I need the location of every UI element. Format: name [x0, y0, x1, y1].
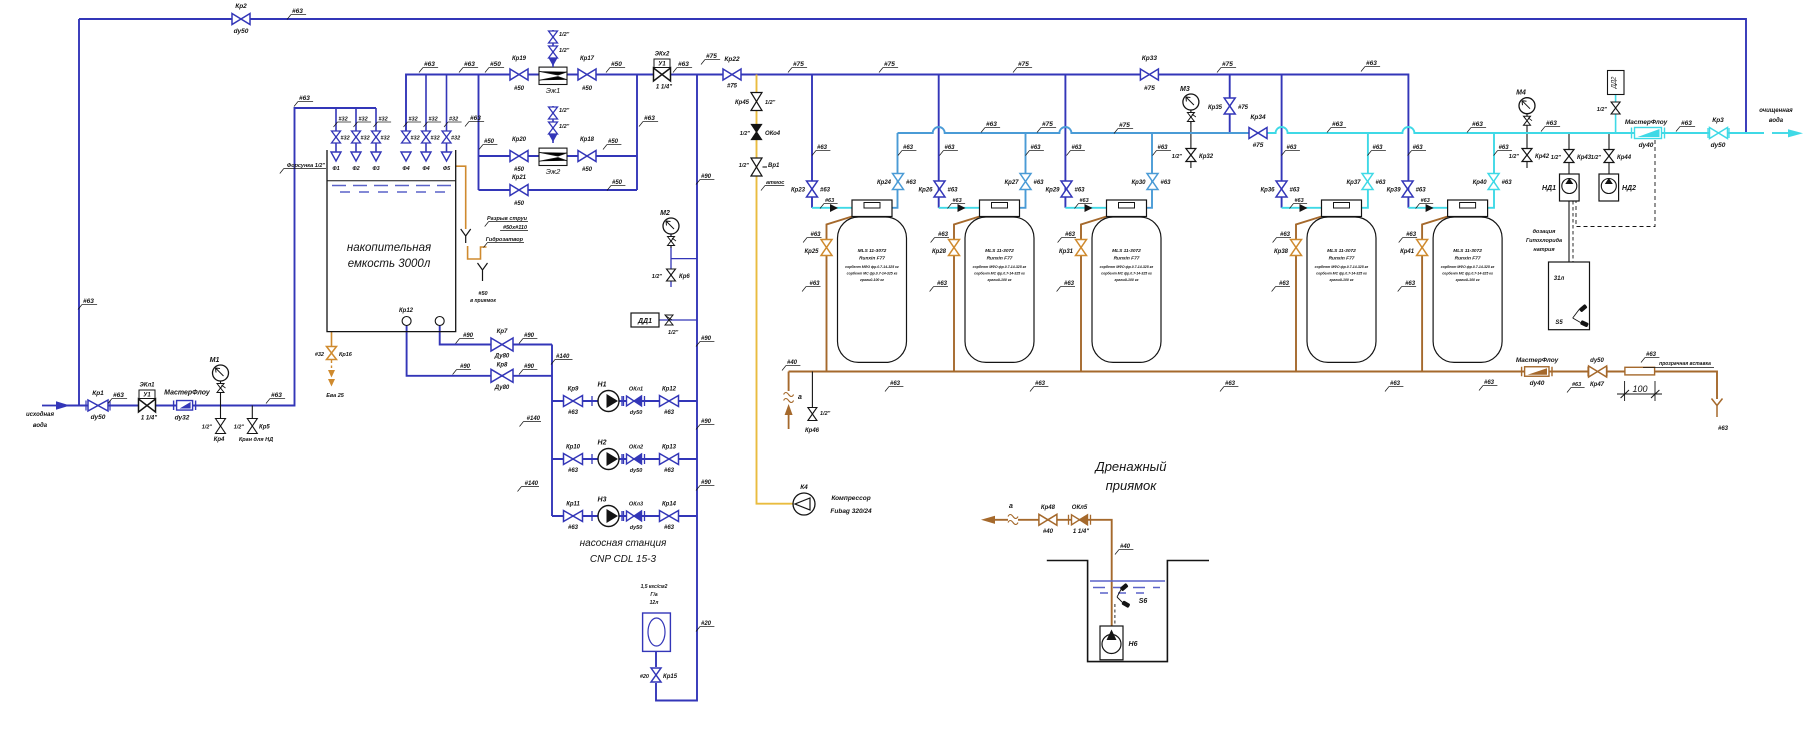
svg-text:Ду80: Ду80: [494, 354, 510, 360]
svg-text:#75: #75: [1042, 121, 1053, 128]
svg-text:очищенная: очищенная: [1759, 108, 1793, 114]
svg-text:Кр45: Кр45: [735, 100, 750, 106]
svg-text:dy50: dy50: [91, 414, 106, 421]
svg-text:#63: #63: [470, 115, 481, 122]
svg-text:Ф5: Ф5: [443, 166, 451, 172]
svg-text:#32: #32: [381, 136, 390, 142]
svg-text:сорбент МС фр.0.7-14-325 кг: сорбент МС фр.0.7-14-325 кг: [1101, 272, 1152, 276]
svg-text:#50х#110: #50х#110: [503, 225, 527, 231]
svg-text:Кр41: Кр41: [1400, 249, 1415, 255]
svg-text:ДД2: ДД2: [1612, 76, 1618, 89]
svg-text:Runxin F77: Runxin F77: [987, 256, 1013, 262]
svg-text:#40: #40: [1043, 529, 1054, 535]
svg-text:#63: #63: [1405, 281, 1416, 287]
svg-text:Кр9: Кр9: [568, 387, 579, 393]
svg-text:#75: #75: [706, 53, 717, 60]
svg-text:гравий-100 кг: гравий-100 кг: [988, 278, 1012, 282]
svg-text:Ду80: Ду80: [494, 385, 510, 391]
svg-text:Кр19: Кр19: [512, 56, 527, 62]
svg-text:dy50: dy50: [630, 410, 643, 416]
svg-text:#63: #63: [424, 61, 435, 68]
svg-text:#63: #63: [1065, 232, 1076, 238]
svg-text:атмос: атмос: [766, 180, 784, 186]
svg-text:#32: #32: [411, 136, 420, 142]
svg-text:1/2": 1/2": [559, 124, 570, 130]
svg-text:ЭКл1: ЭКл1: [139, 383, 155, 389]
svg-text:МастерФлоу: МастерФлоу: [1625, 119, 1668, 126]
svg-text:dy50: dy50: [1711, 142, 1726, 149]
svg-text:#63: #63: [1290, 188, 1301, 194]
svg-text:#63: #63: [820, 188, 831, 194]
svg-text:#90: #90: [701, 174, 712, 180]
svg-text:Кр4: Кр4: [214, 437, 225, 443]
svg-text:исходная: исходная: [26, 412, 54, 418]
svg-text:Кр28: Кр28: [932, 249, 947, 255]
svg-text:#40: #40: [787, 360, 798, 366]
svg-text:#140: #140: [525, 481, 539, 487]
svg-text:Кр44: Кр44: [1617, 155, 1632, 161]
svg-text:К4: К4: [800, 484, 808, 491]
svg-text:У1: У1: [143, 393, 151, 399]
svg-text:МастерФлоу: МастерФлоу: [1516, 357, 1559, 364]
svg-text:CNP CDL 15-3: CNP CDL 15-3: [590, 554, 657, 565]
svg-text:#63: #63: [1161, 180, 1172, 186]
svg-text:сорбент МФО фр.0.7-14-325 кг: сорбент МФО фр.0.7-14-325 кг: [1441, 265, 1495, 269]
svg-text:12л: 12л: [650, 600, 660, 606]
svg-text:Кр23: Кр23: [791, 188, 806, 194]
svg-text:1 1/4": 1 1/4": [656, 85, 672, 91]
svg-text:сорбент МФО фр.0.7-14-325 кг: сорбент МФО фр.0.7-14-325 кг: [1315, 265, 1369, 269]
svg-text:1/2": 1/2": [740, 131, 751, 137]
svg-text:Форсунка 1/2": Форсунка 1/2": [287, 163, 325, 169]
svg-text:#63: #63: [945, 145, 956, 151]
svg-text:#63: #63: [1075, 188, 1086, 194]
svg-text:dy50: dy50: [234, 28, 249, 35]
svg-text:Кран для НД: Кран для НД: [239, 437, 273, 443]
svg-text:У1: У1: [658, 62, 666, 68]
svg-text:#90: #90: [524, 333, 535, 339]
svg-text:1/2": 1/2": [202, 425, 213, 431]
svg-text:#63: #63: [1718, 426, 1729, 432]
svg-text:сорбент МС фр.0.7-14-325 кг: сорбент МС фр.0.7-14-325 кг: [1316, 272, 1367, 276]
svg-text:Кр22: Кр22: [724, 56, 740, 63]
svg-text:Кр25: Кр25: [804, 249, 819, 255]
svg-text:MLS 11-3072: MLS 11-3072: [1327, 248, 1356, 254]
svg-text:#63: #63: [810, 232, 821, 238]
svg-text:#50: #50: [490, 61, 501, 68]
svg-text:Гипохлорида: Гипохлорида: [1526, 238, 1562, 244]
svg-text:гравий-100 кг: гравий-100 кг: [1330, 278, 1354, 282]
svg-text:#40: #40: [1120, 544, 1131, 550]
svg-text:сорбент МФО фр.0.7-14-325 кг: сорбент МФО фр.0.7-14-325 кг: [973, 265, 1027, 269]
svg-text:Кр18: Кр18: [580, 137, 595, 143]
svg-text:1 1/4": 1 1/4": [141, 416, 157, 422]
svg-text:Н1: Н1: [598, 382, 607, 389]
svg-text:накопительная: накопительная: [347, 242, 431, 254]
svg-text:#63: #63: [113, 392, 124, 399]
svg-text:Разрыв струи: Разрыв струи: [487, 216, 528, 222]
svg-text:сорбент МФО фр.0.7-14-325 кг: сорбент МФО фр.0.7-14-325 кг: [1100, 265, 1154, 269]
svg-text:#90: #90: [701, 419, 712, 425]
svg-text:#32: #32: [409, 117, 418, 123]
svg-text:Кр2: Кр2: [235, 3, 247, 10]
svg-text:#63: #63: [1287, 145, 1298, 151]
svg-text:сорбент МС фр.0.7-14-325 кг: сорбент МС фр.0.7-14-325 кг: [974, 272, 1025, 276]
svg-text:Кр31: Кр31: [1059, 249, 1074, 255]
svg-text:ДД1: ДД1: [637, 318, 652, 325]
svg-text:MLS 11-3072: MLS 11-3072: [1453, 248, 1482, 254]
svg-text:dy50: dy50: [630, 468, 643, 474]
svg-text:#63: #63: [1034, 180, 1045, 186]
svg-text:ЭКх2: ЭКх2: [655, 52, 670, 58]
svg-text:#63: #63: [1390, 381, 1401, 387]
svg-text:#63: #63: [568, 468, 579, 474]
svg-text:#140: #140: [527, 416, 541, 422]
svg-text:#63: #63: [1225, 381, 1236, 387]
svg-text:#63: #63: [1421, 198, 1430, 204]
svg-text:#63: #63: [1366, 60, 1377, 67]
svg-text:#63: #63: [299, 95, 310, 102]
svg-text:#90: #90: [460, 364, 471, 370]
svg-text:#63: #63: [948, 188, 959, 194]
svg-text:Кр39: Кр39: [1387, 188, 1402, 194]
svg-text:приямок: приямок: [1106, 478, 1158, 493]
svg-text:#75: #75: [793, 61, 804, 68]
svg-text:MLS 11-3072: MLS 11-3072: [858, 248, 887, 254]
svg-text:#50: #50: [514, 201, 525, 207]
svg-text:Вр1: Вр1: [768, 163, 780, 169]
svg-text:Кр40: Кр40: [1473, 180, 1488, 186]
svg-text:вода: вода: [33, 423, 48, 429]
svg-text:#63: #63: [568, 525, 579, 531]
svg-text:Кр36: Кр36: [1260, 188, 1275, 194]
svg-text:#50: #50: [612, 180, 623, 186]
svg-text:Г/а: Г/а: [650, 592, 657, 598]
svg-text:Runxin F77: Runxin F77: [859, 256, 885, 262]
svg-text:Ф3: Ф3: [372, 166, 379, 172]
svg-text:Эж1: Эж1: [546, 86, 561, 95]
svg-text:#63: #63: [1373, 145, 1384, 151]
svg-text:31л: 31л: [1554, 276, 1565, 282]
svg-text:ОКл3: ОКл3: [629, 502, 643, 508]
svg-text:Кр32: Кр32: [1199, 154, 1214, 160]
svg-text:Кр30: Кр30: [1131, 180, 1146, 186]
svg-text:НД2: НД2: [1622, 185, 1636, 192]
svg-text:Ева 25: Ева 25: [326, 393, 345, 399]
svg-text:#63: #63: [1572, 382, 1581, 388]
svg-text:ОКл5: ОКл5: [1072, 505, 1088, 511]
svg-text:#75: #75: [1119, 122, 1130, 129]
svg-text:dy50: dy50: [630, 525, 643, 531]
svg-text:Кр46: Кр46: [805, 428, 820, 434]
svg-text:Кр11: Кр11: [566, 502, 580, 508]
svg-text:#63: #63: [817, 145, 828, 151]
svg-text:#90: #90: [524, 364, 535, 370]
svg-text:S6: S6: [1139, 598, 1148, 605]
svg-text:Кр27: Кр27: [1004, 180, 1019, 186]
svg-text:#75: #75: [1222, 61, 1233, 68]
svg-text:Кр10: Кр10: [566, 445, 581, 451]
svg-text:Эж2: Эж2: [546, 167, 561, 176]
svg-text:#63: #63: [1484, 380, 1495, 386]
svg-text:М3: М3: [1180, 86, 1190, 93]
svg-text:#32: #32: [315, 352, 324, 358]
svg-text:#63: #63: [1158, 145, 1169, 151]
svg-text:Кр7: Кр7: [497, 329, 508, 335]
svg-text:прозрачная вставка: прозрачная вставка: [1659, 361, 1711, 367]
svg-text:#75: #75: [1238, 105, 1249, 111]
svg-text:#63: #63: [1080, 198, 1089, 204]
svg-text:#63: #63: [825, 198, 834, 204]
svg-text:Кр43: Кр43: [1577, 155, 1592, 161]
svg-text:1 1/4": 1 1/4": [1073, 529, 1089, 535]
svg-text:а: а: [798, 394, 802, 401]
svg-text:#32: #32: [449, 117, 458, 123]
svg-text:Кр3: Кр3: [1712, 117, 1724, 124]
svg-text:Кр6: Кр6: [679, 274, 690, 280]
svg-text:Кр24: Кр24: [877, 180, 892, 186]
svg-text:1/2": 1/2": [1509, 154, 1520, 160]
svg-text:#50: #50: [514, 167, 525, 173]
svg-text:гравий-100 кг: гравий-100 кг: [1456, 278, 1480, 282]
svg-text:1/2": 1/2": [1597, 107, 1608, 113]
svg-text:Кр48: Кр48: [1041, 505, 1056, 511]
svg-text:Кр12: Кр12: [399, 308, 414, 314]
svg-text:емкость 3000л: емкость 3000л: [348, 258, 431, 270]
svg-text:Кр26: Кр26: [918, 188, 933, 194]
svg-text:#32: #32: [339, 117, 348, 123]
svg-text:#50: #50: [608, 139, 619, 145]
svg-text:1/2": 1/2": [820, 411, 831, 417]
svg-text:#32: #32: [379, 117, 388, 123]
svg-text:Кр13: Кр13: [662, 445, 677, 451]
svg-text:MLS 11-3072: MLS 11-3072: [985, 248, 1014, 254]
svg-text:#63: #63: [903, 145, 914, 151]
svg-text:#63: #63: [986, 121, 997, 128]
svg-text:Компрессор: Компрессор: [831, 495, 870, 502]
svg-text:#20: #20: [640, 674, 649, 680]
svg-text:М2: М2: [660, 210, 670, 217]
svg-text:#50: #50: [582, 167, 593, 173]
svg-text:ОКл2: ОКл2: [629, 445, 643, 451]
svg-text:Дренажный: Дренажный: [1094, 459, 1167, 474]
svg-text:#63: #63: [809, 281, 820, 287]
svg-text:1/2": 1/2": [652, 274, 663, 280]
svg-text:#90: #90: [701, 336, 712, 342]
svg-text:#63: #63: [1546, 120, 1557, 127]
svg-text:М1: М1: [210, 357, 220, 364]
svg-text:Кр5: Кр5: [259, 425, 270, 431]
svg-text:Кр17: Кр17: [580, 56, 595, 62]
svg-text:#63: #63: [1280, 232, 1291, 238]
svg-text:#50: #50: [582, 86, 593, 92]
svg-text:гравий-100 кг: гравий-100 кг: [1115, 278, 1139, 282]
svg-text:в приямок: в приямок: [470, 298, 496, 304]
svg-text:#63: #63: [937, 281, 948, 287]
svg-text:#32: #32: [359, 117, 368, 123]
svg-text:#63: #63: [1279, 281, 1290, 287]
svg-text:ОКо4: ОКо4: [765, 131, 781, 137]
svg-text:Ф1: Ф1: [332, 166, 339, 172]
svg-text:1/2": 1/2": [668, 330, 679, 336]
svg-text:Кр33: Кр33: [1142, 55, 1158, 62]
svg-text:1/2": 1/2": [559, 48, 570, 54]
svg-text:Н3: Н3: [598, 497, 607, 504]
svg-text:1/2": 1/2": [739, 163, 750, 169]
svg-text:Runxin F77: Runxin F77: [1329, 256, 1355, 262]
svg-text:#32: #32: [361, 136, 370, 142]
svg-text:#32: #32: [429, 117, 438, 123]
svg-text:S5: S5: [1555, 320, 1563, 326]
svg-text:Кр47: Кр47: [1590, 382, 1605, 388]
svg-text:насосная станция: насосная станция: [580, 538, 667, 549]
svg-text:#50: #50: [478, 291, 487, 297]
svg-text:#63: #63: [1413, 145, 1424, 151]
svg-text:#63: #63: [568, 410, 579, 416]
svg-text:Кр42: Кр42: [1535, 154, 1550, 160]
svg-text:Кр21: Кр21: [512, 175, 527, 181]
svg-text:#63: #63: [678, 61, 689, 68]
svg-text:#50: #50: [514, 86, 525, 92]
svg-text:#63: #63: [644, 115, 655, 122]
svg-text:#63: #63: [83, 298, 94, 305]
svg-text:#75: #75: [727, 84, 738, 90]
svg-text:Кр37: Кр37: [1346, 180, 1361, 186]
svg-text:сорбент МС фр.0.7-14-325 кг: сорбент МС фр.0.7-14-325 кг: [847, 272, 898, 276]
svg-text:сорбент МС фр.0.7-14-325 кг: сорбент МС фр.0.7-14-325 кг: [1442, 272, 1493, 276]
svg-text:#50: #50: [611, 61, 622, 68]
svg-text:Кр29: Кр29: [1045, 188, 1060, 194]
svg-text:#75: #75: [884, 61, 895, 68]
svg-text:#63: #63: [1332, 121, 1343, 128]
svg-text:#63: #63: [1072, 145, 1083, 151]
svg-text:dy40: dy40: [1639, 142, 1654, 149]
svg-text:#63: #63: [1502, 180, 1513, 186]
svg-text:Fubag 320/24: Fubag 320/24: [830, 508, 872, 515]
svg-text:М4: М4: [1516, 90, 1526, 97]
svg-text:#32: #32: [431, 136, 440, 142]
svg-text:1/2": 1/2": [559, 108, 570, 114]
svg-text:Кр16: Кр16: [339, 352, 353, 358]
svg-text:#63: #63: [664, 525, 675, 531]
svg-text:вода: вода: [1769, 118, 1784, 124]
svg-text:#63: #63: [1035, 381, 1046, 387]
svg-text:гравий-100 кг: гравий-100 кг: [860, 278, 884, 282]
svg-text:#63: #63: [1064, 281, 1075, 287]
svg-text:1,5 кгс/см2: 1,5 кгс/см2: [641, 584, 668, 590]
svg-text:#63: #63: [1472, 121, 1483, 128]
svg-text:#63: #63: [271, 392, 282, 399]
svg-text:#63: #63: [890, 381, 901, 387]
svg-text:#63: #63: [1031, 145, 1042, 151]
svg-text:#32: #32: [451, 136, 460, 142]
svg-text:Кр34: Кр34: [1250, 114, 1266, 121]
svg-text:dy40: dy40: [1530, 380, 1545, 387]
svg-text:#63: #63: [464, 61, 475, 68]
svg-text:#90: #90: [701, 480, 712, 486]
svg-text:#32: #32: [341, 136, 350, 142]
svg-text:Кр1: Кр1: [92, 390, 104, 397]
svg-text:#75: #75: [1253, 142, 1264, 149]
svg-text:#63: #63: [938, 232, 949, 238]
svg-text:дозация: дозация: [1533, 229, 1557, 235]
svg-text:Ф2: Ф2: [352, 166, 359, 172]
svg-text:1/2": 1/2": [765, 100, 776, 106]
svg-text:Runxin F77: Runxin F77: [1114, 256, 1140, 262]
svg-text:#63: #63: [292, 8, 303, 15]
svg-text:Кр20: Кр20: [512, 137, 527, 143]
svg-text:Кр8: Кр8: [497, 363, 508, 369]
svg-text:#90: #90: [463, 333, 474, 339]
svg-text:1/2": 1/2": [559, 32, 570, 38]
svg-text:Н2: Н2: [598, 440, 607, 447]
svg-text:а: а: [1009, 503, 1013, 510]
svg-text:Ф4: Ф4: [402, 166, 409, 172]
svg-text:#63: #63: [953, 198, 962, 204]
svg-text:#63: #63: [906, 180, 917, 186]
svg-text:#63: #63: [1681, 120, 1692, 127]
svg-text:натрия: натрия: [1533, 247, 1555, 253]
svg-text:#63: #63: [664, 410, 675, 416]
svg-text:#63: #63: [1646, 352, 1657, 358]
svg-text:#20: #20: [701, 621, 712, 627]
svg-text:Кр12: Кр12: [662, 387, 677, 393]
svg-text:100: 100: [1632, 384, 1647, 394]
svg-text:Кр35: Кр35: [1208, 105, 1223, 111]
svg-text:1/2": 1/2": [1591, 155, 1602, 161]
svg-text:#140: #140: [556, 354, 570, 360]
svg-text:Н6: Н6: [1129, 641, 1138, 648]
svg-text:1/2": 1/2": [1551, 155, 1562, 161]
svg-text:Ф4: Ф4: [422, 166, 429, 172]
svg-text:#63: #63: [664, 468, 675, 474]
svg-text:#63: #63: [1499, 145, 1510, 151]
svg-text:#50: #50: [484, 139, 495, 145]
svg-text:#75: #75: [1144, 85, 1155, 92]
svg-text:MLS 11-3072: MLS 11-3072: [1112, 248, 1141, 254]
svg-text:МастерФлоу: МастерФлоу: [164, 390, 211, 397]
svg-text:#63: #63: [1406, 232, 1417, 238]
svg-text:ОКл1: ОКл1: [629, 387, 643, 393]
svg-text:Гидрозатвор: Гидрозатвор: [486, 237, 524, 243]
svg-text:сорбент МФО фр.0.7-14-325 кг: сорбент МФО фр.0.7-14-325 кг: [845, 265, 899, 269]
svg-text:Кр14: Кр14: [662, 502, 677, 508]
svg-text:#63: #63: [1376, 180, 1387, 186]
svg-text:dy50: dy50: [1590, 358, 1604, 364]
svg-text:Runxin F77: Runxin F77: [1455, 256, 1481, 262]
svg-text:Кр15: Кр15: [663, 674, 678, 680]
svg-text:#63: #63: [1416, 188, 1427, 194]
svg-text:dy32: dy32: [175, 415, 190, 422]
svg-text:1/2": 1/2": [1172, 154, 1183, 160]
svg-text:#75: #75: [1018, 61, 1029, 68]
svg-text:1/2": 1/2": [234, 425, 245, 431]
svg-text:НД1: НД1: [1542, 185, 1556, 192]
svg-text:#63: #63: [1295, 198, 1304, 204]
svg-text:Кр38: Кр38: [1274, 249, 1289, 255]
